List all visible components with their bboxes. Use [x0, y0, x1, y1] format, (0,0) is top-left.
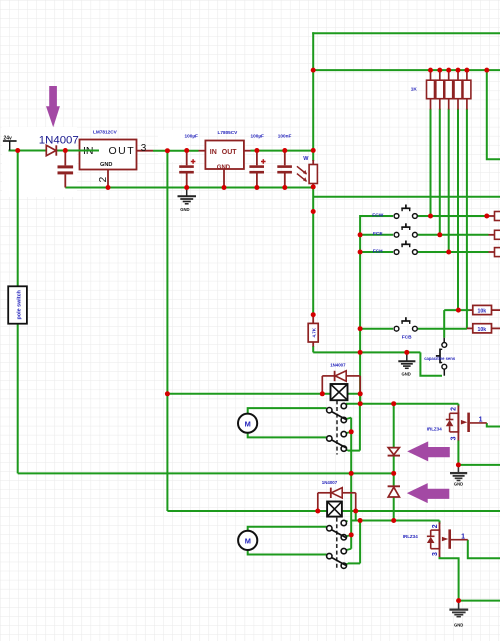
- wire 12V net U1 OUT to U2 IN: [153, 150, 199, 152]
- wire U2 GND pin: [223, 169, 225, 188]
- svg-text:1N4007: 1N4007: [322, 480, 338, 485]
- capacitor C2 100uF: [179, 151, 195, 188]
- wire 12V distribution vertical: [166, 151, 168, 511]
- svg-text:GND: GND: [180, 207, 189, 212]
- junction dot FCH bus: [358, 250, 363, 255]
- wire Q2 source to ground: [440, 557, 459, 601]
- wire K1 coil- down: [359, 394, 361, 404]
- junction dot Q2 source gnd: [456, 598, 461, 603]
- wire motor M2 bottom lead: [248, 550, 327, 555]
- wire K1 contact 1 link: [345, 404, 348, 406]
- wire resistor R4 output vertical: [457, 109, 459, 310]
- relay K2 coil: [327, 502, 342, 517]
- wire sensor feed vertical: [443, 310, 445, 338]
- junction dot right rail top: [484, 68, 489, 73]
- junction dot K2 drain bus left: [358, 518, 363, 523]
- wire FCB switch left: [360, 328, 393, 330]
- pin 1 Q1: [479, 416, 483, 423]
- junction dot GND1 tap: [184, 185, 189, 190]
- wire 5V rail top horizontal: [312, 32, 500, 34]
- wire FCE switch right to connector: [418, 234, 495, 236]
- wire K1 drain bus: [346, 403, 458, 405]
- svg-text:GND: GND: [454, 481, 463, 486]
- wire Q1 drain drop: [457, 404, 459, 407]
- wire K2 contact 1 link: [345, 521, 348, 523]
- photoresistor LDR W: [297, 160, 318, 188]
- svg-text:M: M: [245, 537, 251, 546]
- wire ground node to right edge: [458, 464, 500, 466]
- svg-text:GND: GND: [454, 622, 463, 627]
- motor M2: [238, 531, 257, 550]
- svg-text:4.7K: 4.7K: [311, 327, 316, 337]
- wire 24V pole bus horizontal: [18, 472, 394, 474]
- wire R6 right lead: [492, 309, 500, 311]
- svg-text:FCE: FCE: [373, 231, 383, 237]
- diode D3 pointing down: [388, 448, 400, 456]
- resistor pack R4: [454, 70, 462, 109]
- wire K2 contact 2 link: [345, 535, 351, 537]
- wire K2 contact 3 link: [345, 549, 351, 551]
- label Q2 IRLZ34: [403, 534, 419, 539]
- wire FCW switch left: [360, 215, 393, 217]
- wire Q1 source to ground node: [457, 440, 459, 465]
- junction dot GND bus button bus: [358, 350, 363, 355]
- label resistor pack 1K: [411, 87, 418, 93]
- wire resistor R2 output vertical: [439, 109, 441, 235]
- wire resistor R3 output vertical: [448, 109, 450, 252]
- wire resistor R5 output vertical: [466, 109, 468, 329]
- svg-text:FCH: FCH: [373, 248, 383, 254]
- svg-text:10k: 10k: [478, 309, 487, 315]
- diode D1 1N4007: [46, 145, 56, 155]
- wire right branch vertical x=486.8: [487, 70, 500, 159]
- pushbutton FCB: [394, 317, 417, 331]
- junction dot K2 coil+: [315, 509, 320, 514]
- svg-text:3: 3: [451, 436, 458, 440]
- connector pin FCE right edge: [495, 230, 500, 239]
- wire diode chain vertical lower: [393, 497, 395, 520]
- junction dot Q1 source gnd: [456, 462, 461, 467]
- junction dot FCW row right: [484, 214, 489, 219]
- svg-text:100µF: 100µF: [251, 134, 265, 139]
- mosfet Q2 IRLZ34: [427, 522, 468, 557]
- svg-text:capacitive sens: capacitive sens: [424, 356, 456, 361]
- wire D1 cathode through regulator IN pin: [57, 150, 100, 152]
- resistor pack R1: [427, 70, 435, 109]
- junction dot K1 coil-: [358, 391, 363, 396]
- resistor pack R3: [445, 70, 453, 109]
- junction dot U2 GND: [222, 185, 227, 190]
- svg-text:10k: 10k: [478, 327, 487, 333]
- svg-text:2: 2: [451, 407, 458, 411]
- relay K1 coil: [331, 384, 348, 400]
- wire K1 contact 3 link: [345, 432, 351, 434]
- junction dot C3 bottom: [254, 185, 259, 190]
- diode D4 pointing up: [388, 486, 400, 497]
- label Q1 IRLZ34: [427, 426, 443, 431]
- voltage regulator U2 L7805: [205, 141, 244, 172]
- ground symbol GND2: [398, 352, 415, 376]
- junction dot contact chain mid: [349, 429, 354, 434]
- label C4 100nF: [278, 134, 292, 139]
- junction dot K1 drain bus diode chain: [391, 401, 396, 406]
- junction dot R4 R6 node: [456, 308, 461, 313]
- wire K1 contact 4 link: [345, 449, 348, 450]
- junction dot FCB bus: [358, 326, 363, 331]
- white annotation patch behind arrow and 1N4007 label: [2, 127, 186, 197]
- wire sensor return jog: [420, 352, 442, 375]
- resistor R8 4.7K: [308, 316, 318, 347]
- svg-text:1N4007: 1N4007: [39, 134, 79, 146]
- pushbutton FCW: [394, 205, 417, 219]
- mosfet Q1 IRLZ34: [446, 406, 487, 441]
- relay K2 actuator dashed line: [336, 518, 338, 569]
- motor M1: [238, 414, 257, 433]
- pin 2 Q1: [451, 407, 458, 411]
- junction dot FCH row: [446, 250, 451, 255]
- junction dot FCW row left: [428, 214, 433, 219]
- junction dot C4 bottom: [282, 185, 287, 190]
- relay K1 actuator dashed line: [336, 400, 338, 454]
- relay K1 contacts: [327, 403, 347, 451]
- svg-text:IRLZ34: IRLZ34: [427, 426, 443, 431]
- wire FCE switch left: [360, 234, 393, 236]
- wire 5V net U2 OUT to LDR node: [251, 150, 314, 152]
- svg-text:IN: IN: [210, 149, 217, 156]
- capacitor C3 100uF: [249, 151, 265, 188]
- wire contact chain vertical: [350, 418, 352, 549]
- capacitor C1: [58, 151, 74, 188]
- label D5 1N4007: [322, 480, 338, 485]
- svg-text:GND: GND: [100, 162, 112, 168]
- pin 3 Q2: [432, 552, 439, 556]
- relay K2 contacts: [327, 520, 347, 568]
- pin 3 U1: [141, 143, 147, 154]
- wire 24v input to diode D1: [9, 150, 47, 152]
- junction dot divider net: [311, 209, 316, 214]
- svg-text:1K: 1K: [411, 87, 418, 93]
- junction dot pole bus chain: [349, 471, 354, 476]
- label D1 1N4007: [39, 134, 79, 146]
- label D2 1N4007: [330, 363, 346, 368]
- resistor R7 10k: [473, 324, 492, 333]
- wire K2 contact 4 link: [345, 563, 348, 565]
- label C2 100uF: [185, 134, 199, 139]
- junction dot R3 top: [446, 68, 451, 73]
- label FCW: [372, 212, 383, 218]
- svg-text:1N4007: 1N4007: [330, 363, 346, 368]
- svg-text:100µF: 100µF: [185, 134, 199, 139]
- wire U2 OUT pin stub: [244, 150, 251, 152]
- junction dot FCE row: [437, 232, 442, 237]
- wire Q2 gate exit: [468, 540, 500, 559]
- junction dot R2 top: [437, 68, 442, 73]
- junction dot R1 top: [428, 68, 433, 73]
- wire K1 contact return vertical: [359, 404, 361, 451]
- wire K2 drain bus: [351, 520, 439, 522]
- pin 2 Q2: [432, 524, 439, 528]
- pin 3 Q1: [451, 436, 458, 440]
- purple annotation arrow 1 top: [46, 86, 60, 127]
- svg-text:pole switch: pole switch: [17, 290, 23, 319]
- label FCH: [373, 248, 383, 254]
- junction dot 12V branch: [165, 148, 170, 153]
- junction dot K2 drain bus diode chain: [391, 518, 396, 523]
- junction dot K1 coil+: [320, 391, 325, 396]
- wire FCW switch right to connector: [418, 215, 495, 217]
- flyback diode D5 1N4007: [318, 488, 356, 510]
- junction dot contact chain K2: [349, 532, 354, 537]
- wire LDR bottom vertical to divider: [312, 186, 314, 316]
- label C3 100uF: [251, 134, 265, 139]
- svg-text:FCB: FCB: [402, 335, 412, 341]
- svg-text:3: 3: [141, 143, 147, 154]
- capacitor C4 100nF: [277, 151, 292, 188]
- supply symbol 24v input: [3, 135, 17, 150]
- svg-text:FCW: FCW: [372, 212, 383, 218]
- wire GND bus of power section: [65, 187, 313, 189]
- junction dot C2 top: [184, 148, 189, 153]
- wire 12V to relay K2 coil: [167, 510, 355, 512]
- junction dot LDR bottom: [311, 184, 316, 189]
- wire GND bus mid section: [313, 351, 420, 353]
- junction dot 5V rail branch: [311, 68, 316, 73]
- svg-text:1: 1: [479, 416, 483, 423]
- junction dot R8 top: [311, 312, 316, 317]
- junction dot diode pair mid: [391, 471, 396, 476]
- wire R7 right lead: [492, 327, 500, 329]
- wire resistor R1 output vertical: [430, 109, 432, 216]
- junction dot 12V relay K1 tap: [165, 391, 170, 396]
- resistor pack R2: [436, 70, 444, 109]
- wire FCH switch left: [360, 251, 393, 253]
- wire motor M1 bottom lead: [248, 433, 327, 438]
- junction dot R4 top: [456, 68, 461, 73]
- junction dot U1 GND: [106, 185, 111, 190]
- voltage regulator U1 box LM7812CV: [80, 140, 137, 170]
- junction dot C4 top: [282, 148, 287, 153]
- label capacitive sensor: [424, 356, 456, 361]
- svg-text:M: M: [245, 419, 251, 428]
- wire diode chain vertical upper: [393, 404, 395, 447]
- capacitive sensor switch S1: [436, 338, 447, 376]
- svg-text:OUT: OUT: [109, 145, 136, 157]
- junction dot FCE bus: [358, 232, 363, 237]
- wire K2 contact return vertical: [359, 521, 361, 564]
- connector pin FCW right edge: [495, 212, 500, 221]
- pushbutton FCH: [394, 241, 417, 255]
- svg-text:100nF: 100nF: [278, 134, 292, 139]
- junction dot R5 top: [464, 68, 469, 73]
- wire regulator U1 OUT pin stub: [137, 150, 154, 152]
- svg-text:LM7812CV: LM7812CV: [93, 130, 118, 135]
- wire 24V pole switch vertical: [17, 151, 19, 474]
- junction dot K2 coil-: [353, 509, 358, 514]
- wire R4 node to R6: [444, 309, 473, 311]
- wire K2 bottom link: [348, 562, 360, 564]
- junction dot C3 top: [254, 148, 259, 153]
- label U2 L7805CV: [218, 130, 239, 135]
- resistor pack R5: [463, 70, 471, 109]
- flyback diode D2 1N4007: [322, 371, 360, 393]
- svg-text:1: 1: [461, 534, 465, 541]
- wire K2 coil- to right edge: [356, 510, 500, 512]
- wire 5V rail to resistor pack row: [313, 69, 500, 71]
- junction dot GND2 tap: [404, 350, 409, 355]
- junction dot D1 cathode: [63, 148, 68, 153]
- pin 2 U1: [98, 176, 109, 182]
- svg-text:3: 3: [432, 552, 439, 556]
- svg-text:L7805CV: L7805CV: [218, 130, 239, 135]
- wire motor M1 top lead: [248, 408, 327, 414]
- wire 5V rail vertical: [312, 32, 314, 161]
- wire K1 contact 2 link: [345, 418, 351, 420]
- pushbutton FCE: [394, 223, 417, 237]
- wire divider mid bus to right edge: [313, 196, 500, 198]
- svg-text:IRLZ34: IRLZ34: [403, 534, 419, 539]
- label FCE: [373, 231, 383, 237]
- svg-text:OUT: OUT: [222, 149, 238, 156]
- svg-text:GND: GND: [402, 372, 411, 377]
- svg-text:2: 2: [432, 524, 439, 528]
- wire motor M2 top lead: [248, 527, 327, 531]
- wire ground node 2 to right edge: [459, 600, 500, 602]
- svg-text:W: W: [303, 156, 309, 162]
- wire 12V to relay K1 coil: [167, 393, 360, 395]
- wire Q1 gate exit: [487, 423, 500, 427]
- wire button bus vertical: [359, 215, 361, 404]
- wire FCH switch right to connector: [418, 251, 495, 253]
- pin 1 Q2: [461, 534, 465, 541]
- junction dot 24v branch: [15, 148, 20, 153]
- wire Q2 drain drop: [439, 521, 441, 525]
- wire U1 GND pin: [107, 170, 109, 188]
- ground symbol GND1: [178, 188, 197, 212]
- pole switch S2: [8, 286, 27, 323]
- junction dot K1 drain bus left: [358, 401, 363, 406]
- wire U2 IN pin stub: [199, 150, 206, 152]
- wire R8 bottom to GND bus: [312, 346, 314, 352]
- label FCB: [402, 335, 412, 341]
- wire K1 bottom link: [348, 450, 360, 452]
- label U1 LM7812CV: [93, 130, 118, 135]
- wire FCB switch right to R7: [418, 327, 473, 329]
- ground symbol GND3: [450, 465, 467, 486]
- junction dot 5V LDR node: [311, 148, 316, 153]
- label LDR W: [303, 156, 309, 162]
- resistor R6 10k: [473, 305, 492, 314]
- purple annotation arrow 3: [407, 483, 450, 503]
- purple annotation arrow 2: [407, 441, 450, 461]
- wire K2 coil- jog: [355, 511, 357, 521]
- connector pin FCH right edge: [495, 248, 500, 257]
- ground symbol GND4: [449, 601, 468, 628]
- wire diode chain vertical middle: [393, 456, 395, 488]
